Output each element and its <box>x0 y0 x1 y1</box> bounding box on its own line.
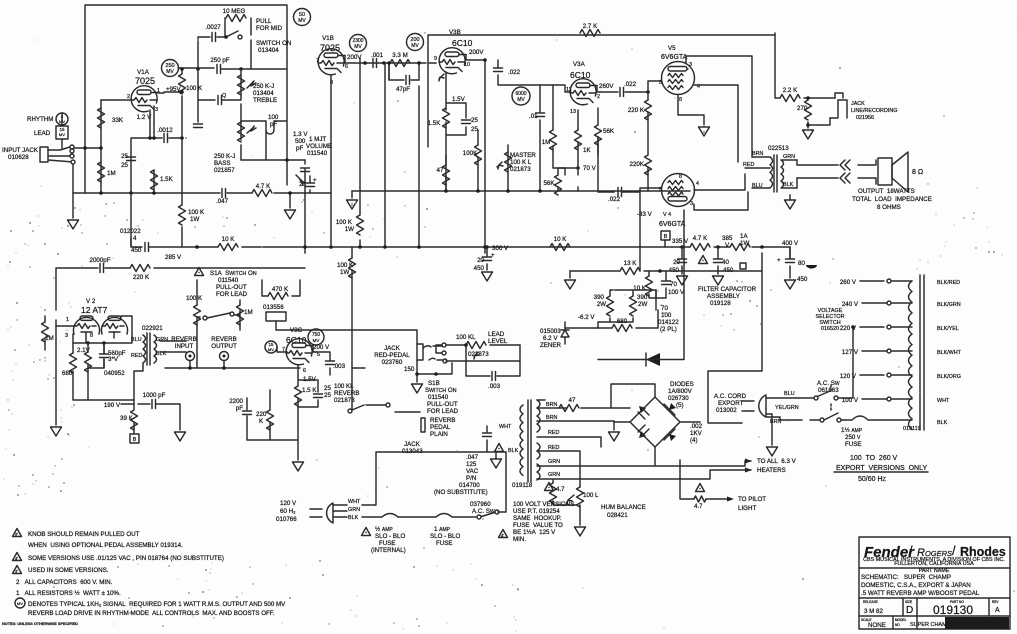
svg-text:260 V: 260 V <box>840 279 857 286</box>
svg-text:WHT: WHT <box>348 499 361 505</box>
svg-text:FUSE VALUE TO: FUSE VALUE TO <box>513 522 563 529</box>
svg-text:.0027: .0027 <box>205 24 221 31</box>
svg-text:USE P.T. 019254: USE P.T. 019254 <box>513 508 560 515</box>
svg-text:3: 3 <box>65 333 68 339</box>
svg-text:3*V: 3*V <box>108 356 119 363</box>
svg-text:NONE: NONE <box>868 622 886 629</box>
svg-text:5: 5 <box>317 352 320 358</box>
svg-text:2200: 2200 <box>229 398 243 405</box>
svg-text:4.7 K: 4.7 K <box>693 235 708 242</box>
svg-text:/: / <box>909 543 913 558</box>
svg-text:TREBLE: TREBLE <box>253 97 277 104</box>
svg-text:47: 47 <box>569 397 576 404</box>
svg-text:1W: 1W <box>340 269 349 276</box>
svg-text:015003: 015003 <box>540 328 561 335</box>
svg-text:EXPORT: EXPORT <box>718 400 744 407</box>
svg-text:100 K: 100 K <box>336 219 353 226</box>
svg-text:FOR LEAD: FOR LEAD <box>216 291 247 298</box>
svg-text:040952: 040952 <box>104 370 125 377</box>
svg-text:PULL: PULL <box>256 18 272 25</box>
svg-text:3: 3 <box>690 201 693 207</box>
svg-text:MV: MV <box>17 601 23 606</box>
svg-text:BLK: BLK <box>508 448 519 454</box>
svg-text:56K: 56K <box>543 180 555 187</box>
svg-text:100 K: 100 K <box>186 85 203 92</box>
svg-text:100 K: 100 K <box>188 209 205 216</box>
svg-text:250 K-J: 250 K-J <box>253 83 274 90</box>
svg-text:EXPORT VERSIONS ONLY: EXPORT VERSIONS ONLY <box>836 465 927 472</box>
svg-text:8: 8 <box>679 174 682 180</box>
svg-text:019130: 019130 <box>933 603 973 617</box>
svg-text:100: 100 <box>268 114 279 121</box>
svg-text:REVERB: REVERB <box>430 417 455 424</box>
svg-text:1.5 K: 1.5 K <box>302 387 317 394</box>
svg-text:TOTAL LOAD IMPEDANCE: TOTAL LOAD IMPEDANCE <box>852 196 932 203</box>
svg-text:BLK/RED: BLK/RED <box>937 280 960 286</box>
svg-text:270: 270 <box>797 105 808 112</box>
svg-text:.003: .003 <box>488 383 501 390</box>
svg-text:019118: 019118 <box>512 482 533 489</box>
svg-text:061663: 061663 <box>818 387 839 394</box>
svg-text:016520: 016520 <box>821 326 839 332</box>
svg-text:(INTERNAL): (INTERNAL) <box>371 547 406 554</box>
svg-text:BRN: BRN <box>546 415 557 421</box>
svg-text:8 Ω: 8 Ω <box>912 169 923 176</box>
svg-text:20: 20 <box>673 259 680 266</box>
svg-text:25: 25 <box>121 162 128 169</box>
svg-text:25: 25 <box>121 153 128 160</box>
svg-text:010628: 010628 <box>8 154 29 161</box>
svg-text:1.2 V: 1.2 V <box>137 114 152 121</box>
svg-text:220: 220 <box>256 411 267 418</box>
svg-text:WHEN USING OPTIONAL PEDAL ASS: WHEN USING OPTIONAL PEDAL ASSEMBLY 01931… <box>28 542 183 549</box>
svg-text:RED: RED <box>548 430 559 436</box>
svg-text:13 K: 13 K <box>624 260 638 267</box>
svg-text:S1B: S1B <box>428 380 440 387</box>
svg-text:3 M 82: 3 M 82 <box>864 608 883 615</box>
svg-text:½ AMP: ½ AMP <box>375 526 393 533</box>
svg-text:VAC: VAC <box>466 468 479 475</box>
svg-text:FOR LEAD: FOR LEAD <box>427 408 458 415</box>
svg-text:39 K: 39 K <box>120 415 134 422</box>
svg-text:200 V: 200 V <box>313 344 330 351</box>
svg-text:014700: 014700 <box>459 482 480 489</box>
svg-text:010766: 010766 <box>276 516 297 523</box>
svg-text:021857: 021857 <box>214 167 235 174</box>
svg-text:4: 4 <box>696 181 699 187</box>
svg-text:BLK/GRN: BLK/GRN <box>937 302 961 308</box>
svg-text:MASTER: MASTER <box>510 152 536 159</box>
svg-text:NO: NO <box>895 623 900 627</box>
svg-text:SLO - BLO: SLO - BLO <box>375 533 405 540</box>
svg-text:120 V: 120 V <box>280 500 297 507</box>
svg-text:BLK: BLK <box>937 420 948 426</box>
svg-text:028421: 028421 <box>607 512 628 519</box>
svg-text:BLU: BLU <box>784 391 795 397</box>
svg-text:019128: 019128 <box>710 300 731 307</box>
svg-text:.5 WATT REVERB AMP W/BOOST PED: .5 WATT REVERB AMP W/BOOST PEDAL <box>861 590 980 597</box>
svg-text:INPUT JACK: INPUT JACK <box>2 147 39 154</box>
svg-text:HEATERS: HEATERS <box>757 467 786 474</box>
svg-text:1.5K: 1.5K <box>160 176 174 183</box>
svg-text:100 K L: 100 K L <box>510 159 532 166</box>
svg-text:GRN: GRN <box>548 472 560 478</box>
svg-text:LEAD: LEAD <box>34 130 51 137</box>
svg-text:.002: .002 <box>690 423 703 430</box>
svg-text:100 V: 100 V <box>668 289 685 296</box>
svg-text:026730: 026730 <box>668 395 689 402</box>
svg-text:V5: V5 <box>668 45 676 52</box>
svg-text:2: 2 <box>597 94 600 100</box>
svg-text:REV: REV <box>992 600 999 604</box>
svg-text:1M: 1M <box>542 139 551 146</box>
svg-text:6.2 V: 6.2 V <box>543 335 558 342</box>
svg-text:1K: 1K <box>583 147 591 154</box>
svg-text:240 V: 240 V <box>842 301 859 308</box>
svg-text:MV: MV <box>166 69 174 75</box>
svg-text:1 ALL RESISTORS ½ WATT ± 10: 1 ALL RESISTORS ½ WATT ± 10%. <box>16 590 121 597</box>
svg-text:YEL/GRN: YEL/GRN <box>775 405 799 411</box>
svg-text:1000 pF: 1000 pF <box>143 392 166 399</box>
svg-text:GRN: GRN <box>156 337 168 343</box>
svg-text:PULL-OUT: PULL-OUT <box>216 284 247 291</box>
svg-text:250 K-J: 250 K-J <box>214 153 235 160</box>
svg-text:SWITCH ON: SWITCH ON <box>256 40 291 47</box>
svg-text:1A/800V: 1A/800V <box>668 388 693 395</box>
svg-text:GRN: GRN <box>548 459 560 465</box>
svg-text:1W: 1W <box>190 216 199 223</box>
svg-text:300 V: 300 V <box>492 245 509 252</box>
svg-text:100 TO 260 V: 100 TO 260 V <box>850 455 898 462</box>
svg-text:FUSE: FUSE <box>436 540 453 547</box>
svg-text:012022: 012022 <box>120 228 141 235</box>
svg-text:10 K: 10 K <box>633 285 647 292</box>
svg-text:023760: 023760 <box>382 359 403 366</box>
svg-text:.0012: .0012 <box>157 127 173 134</box>
svg-text:FUSE: FUSE <box>845 441 862 448</box>
svg-text:2W: 2W <box>638 301 647 308</box>
svg-text:A: A <box>995 607 1000 614</box>
svg-text:2 ALL CAPACITORS 600 V. MIN: 2 ALL CAPACITORS 600 V. MIN. <box>16 579 113 586</box>
svg-text:A.C. CORD: A.C. CORD <box>714 393 747 400</box>
svg-text:33K: 33K <box>112 117 124 124</box>
svg-text:014122: 014122 <box>658 319 679 326</box>
svg-text:DIODES: DIODES <box>670 381 694 388</box>
svg-text:022921: 022921 <box>142 325 163 332</box>
svg-text:013404: 013404 <box>258 47 279 54</box>
svg-text:LEAD: LEAD <box>488 331 505 338</box>
svg-text:ZENER: ZENER <box>540 342 562 349</box>
svg-text:BLK/ORG: BLK/ORG <box>937 374 961 380</box>
svg-text:RED: RED <box>548 445 559 451</box>
svg-text:.047: .047 <box>466 454 479 461</box>
svg-text:2W: 2W <box>597 301 606 308</box>
svg-text:100 VOLT VERSIONS: 100 VOLT VERSIONS <box>513 501 574 508</box>
svg-text:LEVEL: LEVEL <box>488 338 508 345</box>
svg-text:GRN: GRN <box>348 507 360 513</box>
svg-text:1 AMP: 1 AMP <box>434 526 451 533</box>
svg-text:V1A: V1A <box>137 69 150 76</box>
svg-text:BRN: BRN <box>752 151 763 157</box>
svg-text:.003: .003 <box>333 363 346 370</box>
svg-text:PLAIN: PLAIN <box>430 431 448 438</box>
svg-text:8: 8 <box>90 333 93 339</box>
svg-text:LIGHT: LIGHT <box>738 505 756 512</box>
svg-text:47: 47 <box>437 167 444 174</box>
svg-text:P/N: P/N <box>466 475 476 482</box>
svg-text:7: 7 <box>119 316 122 322</box>
svg-text:BLK/WHT: BLK/WHT <box>937 350 962 356</box>
svg-text:SOME VERSIONS USE .01/125 VAC: SOME VERSIONS USE .01/125 VAC , PIN 0187… <box>28 555 224 562</box>
svg-text:BLK: BLK <box>783 182 794 188</box>
svg-text:(5): (5) <box>676 402 684 409</box>
svg-text:WHT: WHT <box>499 424 512 430</box>
svg-text:ASSEMBLY: ASSEMBLY <box>707 293 740 300</box>
svg-text:1 MJT: 1 MJT <box>309 136 326 143</box>
svg-text:285 V: 285 V <box>165 254 182 261</box>
svg-text:BLU: BLU <box>752 183 763 189</box>
svg-text:DOMESTIC, C.S.A., EXPORT & JAP: DOMESTIC, C.S.A., EXPORT & JAPAN <box>861 582 971 589</box>
svg-text:OUTPUT 18WATTS: OUTPUT 18WATTS <box>858 188 915 195</box>
svg-text:SIZE: SIZE <box>905 600 912 604</box>
svg-text:WHT: WHT <box>937 398 950 404</box>
svg-text:8: 8 <box>679 97 682 103</box>
svg-text:A.C. SW: A.C. SW <box>472 508 495 515</box>
svg-text:100K: 100K <box>463 150 478 157</box>
svg-text:1.5V: 1.5V <box>452 96 466 103</box>
svg-text:100 K: 100 K <box>186 295 203 302</box>
svg-text:100 L: 100 L <box>583 492 599 499</box>
svg-text:019119: 019119 <box>903 426 921 432</box>
svg-text:10 K: 10 K <box>222 236 236 243</box>
svg-text:011540: 011540 <box>428 394 449 401</box>
svg-text:pF: pF <box>236 405 243 412</box>
svg-text:013556: 013556 <box>263 304 284 311</box>
svg-text:4: 4 <box>133 235 137 242</box>
svg-text:50/60 HZ: 50/60 HZ <box>858 476 887 483</box>
svg-text:Q: Q <box>222 93 226 99</box>
svg-text:1.5K: 1.5K <box>428 120 442 127</box>
svg-text:.047: .047 <box>216 198 229 205</box>
svg-text:021873: 021873 <box>334 397 355 404</box>
svg-text:2.2 K: 2.2 K <box>783 87 798 94</box>
svg-text:SUPER CHAMP: SUPER CHAMP <box>910 622 951 628</box>
svg-text:1M: 1M <box>244 309 253 316</box>
svg-text:PULL-OUT: PULL-OUT <box>427 401 458 408</box>
svg-text:KNOB SHOULD REMAIN PULLED OUT: KNOB SHOULD REMAIN PULLED OUT <box>28 531 140 538</box>
svg-text:011540: 011540 <box>307 150 328 157</box>
svg-text:47pF: 47pF <box>396 86 410 93</box>
svg-text:BLU: BLU <box>131 337 142 343</box>
svg-text:250 V: 250 V <box>845 434 861 441</box>
svg-text:6: 6 <box>345 64 348 70</box>
svg-text:10 K: 10 K <box>554 236 568 243</box>
svg-text:V1B: V1B <box>322 35 334 42</box>
svg-text:200V: 200V <box>469 49 484 56</box>
svg-text:FULLERTON, CALIFORNIA USA: FULLERTON, CALIFORNIA USA <box>894 561 974 567</box>
svg-text:REVERB: REVERB <box>334 390 359 397</box>
svg-text:SWITCH ON: SWITCH ON <box>425 387 457 394</box>
svg-text:.022: .022 <box>508 69 521 76</box>
svg-text:B: B <box>133 437 137 443</box>
svg-text:1½ AMP: 1½ AMP <box>841 427 863 434</box>
svg-text:SAME HOOKUP.: SAME HOOKUP. <box>513 515 562 522</box>
svg-text:022513: 022513 <box>768 145 789 152</box>
svg-text:pF: pF <box>296 145 303 152</box>
svg-text:.001: .001 <box>371 52 384 59</box>
svg-text:1A: 1A <box>740 233 748 240</box>
svg-text:BLK/YEL: BLK/YEL <box>937 326 959 332</box>
svg-text:680: 680 <box>62 370 73 377</box>
svg-text:BASS: BASS <box>214 160 231 167</box>
svg-text:4.7: 4.7 <box>694 503 703 510</box>
svg-text:2: 2 <box>127 94 130 100</box>
svg-text:70 V: 70 V <box>583 165 597 172</box>
svg-text:3: 3 <box>689 62 692 68</box>
svg-text:4.7: 4.7 <box>556 486 565 493</box>
svg-text:190 V: 190 V <box>104 402 121 409</box>
svg-text:.022: .022 <box>608 196 621 203</box>
svg-text:MODEL: MODEL <box>895 618 907 622</box>
svg-text:V 2: V 2 <box>86 298 96 305</box>
svg-text:25: 25 <box>324 392 331 399</box>
svg-text:(4): (4) <box>690 437 698 444</box>
svg-text:MV: MV <box>59 132 65 137</box>
svg-text:100 KL: 100 KL <box>334 383 354 390</box>
svg-text:1M: 1M <box>107 170 116 177</box>
svg-text:SCHEMATIC: SUPER CHAMP: SCHEMATIC: SUPER CHAMP <box>861 574 951 581</box>
svg-text:V 4: V 4 <box>663 212 671 218</box>
svg-text:PEDAL: PEDAL <box>430 424 451 431</box>
svg-text:220 K: 220 K <box>628 107 645 114</box>
svg-text:BRN: BRN <box>546 402 557 408</box>
svg-text:S1A SWITCH ON: S1A SWITCH ON <box>210 270 257 277</box>
svg-text:.01: .01 <box>529 113 538 120</box>
svg-text:037960: 037960 <box>470 501 491 508</box>
svg-text:(2 PL): (2 PL) <box>660 326 677 333</box>
svg-text:4.7 K: 4.7 K <box>256 183 271 190</box>
svg-text:1KV: 1KV <box>690 430 703 437</box>
svg-text:FILTER CAPACITOR: FILTER CAPACITOR <box>698 286 757 293</box>
svg-text:70: 70 <box>661 305 668 312</box>
svg-text:3.3 M: 3.3 M <box>392 52 407 59</box>
svg-text:2.7 K: 2.7 K <box>583 23 598 30</box>
svg-text:A.C. SW: A.C. SW <box>817 380 840 387</box>
svg-text:220K: 220K <box>630 161 645 168</box>
svg-text:VOLUME: VOLUME <box>306 143 332 150</box>
svg-text:56K: 56K <box>603 128 615 135</box>
svg-text:JACK: JACK <box>404 441 421 448</box>
svg-text:70: 70 <box>670 281 677 288</box>
svg-text:2000pF: 2000pF <box>90 257 111 264</box>
svg-text:021956: 021956 <box>856 115 874 121</box>
svg-text:1.5V: 1.5V <box>303 376 317 383</box>
svg-text:100 V: 100 V <box>842 397 859 404</box>
svg-text:INPUT: INPUT <box>175 343 194 350</box>
svg-text:450: 450 <box>474 265 485 272</box>
svg-text:385: 385 <box>722 235 733 242</box>
svg-text:TO PILOT: TO PILOT <box>738 496 766 503</box>
svg-text:JACK: JACK <box>851 101 865 107</box>
svg-text:V3C: V3C <box>290 327 303 334</box>
svg-text:B: B <box>664 234 668 240</box>
svg-text:20: 20 <box>477 257 484 264</box>
svg-text:MIN.: MIN. <box>513 536 526 543</box>
svg-text:470 K: 470 K <box>272 286 289 293</box>
svg-text:-6.2 V: -6.2 V <box>578 314 595 321</box>
svg-text:390: 390 <box>594 294 605 301</box>
svg-text:.022: .022 <box>624 81 637 88</box>
svg-text:260V: 260V <box>599 83 614 90</box>
svg-text:1: 1 <box>66 317 69 323</box>
svg-text:MV: MV <box>517 97 525 103</box>
svg-text:MV: MV <box>411 43 419 49</box>
svg-text:(NO SUBSTITUTE): (NO SUBSTITUTE) <box>434 489 488 496</box>
svg-text:60 H₂: 60 H₂ <box>280 508 296 515</box>
svg-text:RED: RED <box>131 353 142 359</box>
svg-text:MV: MV <box>313 338 320 343</box>
svg-text:RELEASE: RELEASE <box>863 600 878 604</box>
svg-text:10: 10 <box>464 62 470 68</box>
svg-text:RED: RED <box>743 162 754 168</box>
svg-text:BLK: BLK <box>348 515 359 521</box>
svg-text:450: 450 <box>797 276 808 283</box>
svg-text:RHYTHM: RHYTHM <box>27 116 53 123</box>
svg-text:REVERB: REVERB <box>171 336 196 343</box>
svg-text:6V6GTA: 6V6GTA <box>661 54 688 61</box>
svg-text:100 KL: 100 KL <box>456 334 476 341</box>
svg-text:450: 450 <box>131 247 142 254</box>
svg-text:6V6GTA: 6V6GTA <box>659 221 686 228</box>
svg-text:FUSE: FUSE <box>379 540 396 547</box>
svg-text:+: + <box>491 252 495 259</box>
svg-text:80: 80 <box>798 260 805 267</box>
svg-text:390: 390 <box>637 294 648 301</box>
svg-text:021873: 021873 <box>510 166 531 173</box>
svg-text:25: 25 <box>471 117 478 124</box>
svg-text:013404: 013404 <box>253 90 274 97</box>
svg-text:LINE/RECORDING: LINE/RECORDING <box>851 108 897 114</box>
svg-text:013002: 013002 <box>716 407 737 414</box>
svg-text:NOTES: UNLESS OTHERWISE SPECIF: NOTES: UNLESS OTHERWISE SPECIFIED <box>2 622 78 626</box>
svg-text:1W: 1W <box>740 240 749 247</box>
svg-text:MV: MV <box>298 18 306 24</box>
svg-text:011540: 011540 <box>218 277 239 284</box>
svg-text:D: D <box>906 605 913 616</box>
svg-text:MV: MV <box>268 347 274 352</box>
svg-text:7025: 7025 <box>135 76 155 86</box>
svg-text:9: 9 <box>434 56 437 62</box>
svg-text:GRN: GRN <box>783 154 795 160</box>
svg-text:127 V: 127 V <box>842 349 859 356</box>
svg-text:V3A: V3A <box>573 61 586 68</box>
svg-text:OUTPUT: OUTPUT <box>211 343 237 350</box>
svg-text:13: 13 <box>570 109 576 115</box>
svg-text:1.3 V: 1.3 V <box>293 131 308 138</box>
svg-text:220 K: 220 K <box>133 274 150 281</box>
svg-text:REVERB LOAD DRIVE IN RHYTHM MO: REVERB LOAD DRIVE IN RHYTHM MODE ALL CON… <box>28 610 275 617</box>
svg-text:SLO - BLO: SLO - BLO <box>430 533 460 540</box>
svg-text:6C10: 6C10 <box>452 38 473 48</box>
svg-text:500: 500 <box>295 138 306 145</box>
svg-text:HUM BALANCE: HUM BALANCE <box>601 504 646 511</box>
svg-text:250 pF: 250 pF <box>210 57 229 64</box>
svg-text:JACK: JACK <box>384 345 401 352</box>
svg-text:25: 25 <box>324 385 331 392</box>
svg-text:USED IN SOME VERSIONS.: USED IN SOME VERSIONS. <box>28 567 109 574</box>
svg-text:125: 125 <box>466 461 477 468</box>
svg-text:1: 1 <box>157 88 160 94</box>
